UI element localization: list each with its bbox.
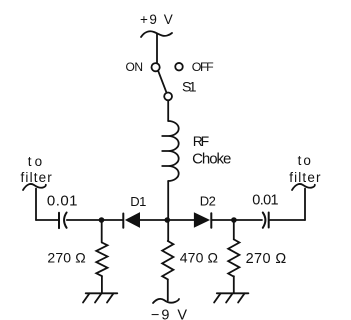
svg-text:to: to — [298, 153, 311, 168]
svg-text:filter: filter — [21, 170, 53, 185]
svg-text:to: to — [28, 154, 43, 169]
svg-text:0.01: 0.01 — [47, 192, 78, 209]
svg-text:0.01: 0.01 — [252, 193, 278, 209]
svg-text:Choke: Choke — [192, 151, 231, 168]
svg-text:270 Ω: 270 Ω — [246, 251, 287, 267]
svg-text:RF: RF — [193, 133, 209, 149]
svg-text:D1: D1 — [130, 194, 146, 209]
svg-text:ON: ON — [126, 60, 144, 74]
svg-text:−9 V: −9 V — [151, 307, 187, 320]
svg-text:D2: D2 — [200, 194, 216, 209]
svg-text:+9 V: +9 V — [140, 12, 173, 27]
svg-text:S1: S1 — [182, 79, 197, 95]
svg-text:OFF: OFF — [192, 60, 214, 74]
svg-text:filter: filter — [289, 170, 321, 185]
svg-text:470 Ω: 470 Ω — [180, 250, 218, 266]
svg-text:270 Ω: 270 Ω — [47, 250, 85, 266]
